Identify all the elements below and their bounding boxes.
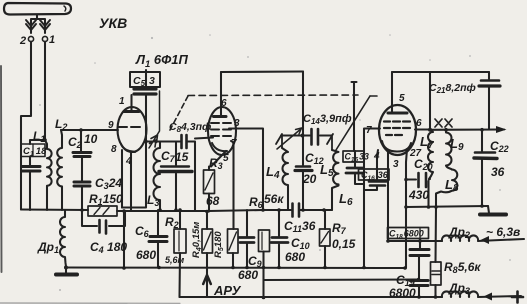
svg-text:4: 4: [373, 151, 380, 162]
svg-text:Др3: Др3: [448, 281, 470, 296]
wire grid bus y210 right: [209, 210, 324, 211]
resistor R6: [259, 230, 270, 252]
tube U1b pentode envelope: [208, 107, 236, 155]
svg-text:7: 7: [366, 125, 372, 136]
node Dr1 ground: [64, 266, 68, 270]
resistor R3: [208, 167, 210, 171]
arrow L4 tuning: [277, 128, 302, 149]
resistor R5: [231, 141, 234, 229]
wire output line: [430, 128, 504, 130]
triode anode bar: [124, 110, 139, 113]
svg-text:680: 680: [238, 268, 258, 282]
plus sign: [512, 292, 523, 303]
svg-text:C2: C2: [68, 135, 82, 150]
svg-text:L2: L2: [55, 117, 67, 132]
dashed tube envelope: [170, 96, 188, 130]
antenna arrow left: [26, 20, 36, 30]
triode cathode lead pin8: [121, 150, 123, 208]
U2 pin3 lead: [406, 149, 407, 268]
svg-text:R85,6к: R85,6к: [444, 260, 481, 275]
wire cathode node to ground bus: [123, 211, 125, 268]
svg-text:Др2: Др2: [448, 225, 470, 240]
wire left bus y210: [21, 208, 88, 211]
pentode cathode lead to R3: [211, 151, 226, 167]
svg-text:15: 15: [175, 150, 189, 164]
wire ARU bus y297: [180, 296, 443, 298]
pentode cathode: [212, 143, 227, 151]
node L5 bottom: [322, 208, 326, 212]
resistor R2: [179, 210, 181, 229]
svg-text:R2: R2: [165, 215, 179, 230]
wire C21 drop: [488, 72, 490, 79]
inductor L7: [428, 130, 433, 179]
choke Dr1: [60, 210, 66, 268]
capacitor C15 label box: [343, 151, 364, 162]
wire C15 top stub: [352, 82, 357, 151]
svg-text:R1150: R1150: [89, 192, 123, 207]
svg-text:C53: C53: [133, 75, 155, 88]
node tank left: [144, 140, 147, 143]
capacitor C4 parallel loop: [82, 210, 125, 226]
antenna stem T: [31, 15, 45, 34]
contact L4 tap: [276, 134, 282, 148]
terminal 1: [42, 36, 47, 41]
U2 pin7 lead left: [364, 129, 380, 268]
node R1 right junction: [122, 209, 126, 213]
svg-text:C20: C20: [414, 157, 433, 172]
node R2 top: [178, 208, 182, 212]
svg-text:C6: C6: [135, 224, 150, 239]
node antenna L1 junction: [43, 138, 47, 142]
U2 anode bar: [388, 112, 407, 115]
svg-text:~ 6,3в: ~ 6,3в: [486, 225, 520, 239]
wire tank top y141: [146, 140, 180, 142]
arrow plus supply: [484, 293, 493, 301]
node L3 bus: [158, 208, 162, 212]
svg-text:L8: L8: [445, 177, 459, 194]
wire terminal2 down with jog: [21, 42, 31, 210]
node C7 bus: [174, 208, 178, 212]
svg-text:1: 1: [119, 96, 125, 107]
wire terminal1 down: [44, 42, 46, 140]
svg-text:C9: C9: [248, 254, 262, 269]
edge artifact bottom: [0, 302, 180, 304]
antenna arrow right: [40, 20, 50, 30]
svg-text:5,6м: 5,6м: [165, 255, 185, 265]
capacitor C1 label box: [21, 144, 45, 157]
wire grid line y130: [61, 129, 118, 131]
svg-text:Л1 6Ф1П: Л1 6Ф1П: [135, 52, 188, 70]
arrow L5 tuning diagonal: [336, 96, 370, 150]
capacitor C22: [480, 128, 484, 132]
wire ground line y207: [406, 206, 488, 207]
wire heater rail: [386, 239, 390, 243]
svg-text:6800: 6800: [389, 286, 416, 300]
inductor L9: [444, 128, 448, 132]
svg-text:5: 5: [223, 153, 229, 164]
svg-text:2: 2: [19, 35, 26, 47]
antenna folded dipole bar: [4, 3, 71, 15]
capacitor C3: [81, 158, 83, 181]
pentode screen lead right: [229, 129, 263, 211]
wire C1 branch: [30, 140, 45, 144]
U2 heater lead: [387, 152, 389, 241]
wire rail stub to L7 node: [429, 72, 431, 130]
node R3 R4 junction: [205, 210, 209, 214]
svg-text:8: 8: [111, 144, 117, 155]
svg-text:C4 180: C4 180: [90, 240, 127, 255]
pentode anode lead: [220, 72, 222, 116]
capacitor C16 label box: [359, 169, 390, 180]
svg-text:6: 6: [221, 98, 227, 109]
antenna bar end mark: [64, 6, 66, 11]
svg-text:5: 5: [399, 93, 405, 104]
node L7 top: [428, 128, 432, 132]
arrow ARU head: [203, 275, 211, 284]
svg-text:R3: R3: [209, 156, 223, 171]
ground symbol left: [65, 268, 67, 274]
svg-text:L9: L9: [450, 136, 464, 153]
wire cathode bus y211: [117, 210, 209, 212]
arrow L3 tuning: [149, 91, 160, 148]
svg-text:1: 1: [49, 34, 55, 46]
svg-text:C84,3пф: C84,3пф: [169, 121, 211, 134]
svg-text:L1: L1: [33, 129, 45, 144]
svg-text:20: 20: [302, 172, 317, 186]
capacitor C15 plates: [346, 168, 363, 173]
U2 cathode arc: [382, 141, 411, 152]
wire ground bus y268: [66, 266, 405, 269]
inductor L2: [57, 130, 62, 210]
capacitor C9: [246, 210, 248, 236]
svg-text:R7: R7: [332, 221, 347, 236]
inductor L1: [45, 140, 52, 210]
resistor R7: [324, 210, 326, 229]
svg-text:430: 430: [408, 188, 429, 202]
svg-text:0,15: 0,15: [332, 237, 356, 251]
capacitor C2: [80, 130, 82, 151]
svg-text:АРУ: АРУ: [213, 283, 242, 298]
svg-text:R5180: R5180: [213, 231, 225, 258]
wire anode rail top: [221, 70, 303, 73]
svg-text:C118: C118: [23, 146, 47, 158]
arrow heater: [481, 236, 490, 244]
inductor L5 L6: [332, 150, 339, 210]
marks XX coupling: [435, 119, 452, 127]
capacitor C20: [406, 178, 430, 181]
svg-text:L7: L7: [420, 134, 434, 151]
svg-text:C218,2пф: C218,2пф: [429, 82, 476, 95]
node C18 C19 rail: [417, 278, 421, 282]
capacitor C12: [296, 165, 310, 168]
U2 grid rows: [384, 120, 410, 122]
node C2C3 bus: [80, 208, 84, 212]
svg-text:6: 6: [416, 118, 422, 129]
tube U1a triode envelope: [118, 107, 147, 152]
capacitor C16 plates: [369, 182, 386, 186]
wire C5 tank vertical: [122, 96, 146, 208]
triode grid dashes: [118, 126, 140, 128]
svg-text:L6: L6: [339, 191, 353, 208]
svg-text:4: 4: [125, 156, 132, 167]
arrow output: [496, 126, 507, 133]
svg-text:L4: L4: [266, 164, 280, 181]
U2 anode lead: [391, 72, 393, 112]
svg-text:R6: R6: [249, 195, 264, 210]
wire U2 pin6 to L7 node: [415, 128, 428, 130]
svg-text:C10: C10: [291, 236, 310, 251]
wire C8 to grid: [195, 138, 213, 139]
wire B rail y280: [264, 278, 419, 281]
capacitor C14: [312, 129, 319, 145]
svg-text:УКВ: УКВ: [99, 15, 127, 31]
pentode anode bar: [214, 115, 227, 118]
svg-text:3: 3: [234, 118, 240, 129]
svg-text:Др1: Др1: [37, 240, 59, 255]
terminal 2: [28, 36, 33, 41]
triode cathode: [121, 144, 135, 152]
capacitor C19: [410, 279, 428, 282]
inductor L3 variable with arrow: [154, 142, 161, 211]
capacitor C1 plates: [22, 167, 40, 172]
resistor R1: [88, 206, 117, 216]
choke Dr3: [442, 291, 521, 297]
capacitor C8: [182, 135, 187, 148]
wire rail drop to C12: [302, 72, 304, 166]
svg-text:10: 10: [84, 132, 98, 146]
wire C20 node down: [427, 181, 429, 207]
svg-text:36: 36: [491, 165, 505, 179]
svg-text:C324: C324: [95, 176, 122, 191]
capacitor C7 trimmer: [175, 142, 177, 166]
node C2 tap: [79, 128, 83, 132]
ground symbol right: [488, 206, 489, 213]
choke Dr2: [442, 235, 524, 241]
capacitor C11 series: [293, 204, 300, 217]
capacitor C10: [277, 208, 281, 212]
svg-text:680: 680: [285, 250, 305, 264]
resistor R8: [431, 262, 442, 285]
wire C14 line y135: [281, 134, 331, 136]
svg-text:7: 7: [231, 138, 237, 149]
svg-text:R40,15м: R40,15м: [191, 222, 203, 258]
wire L8 R8 vertical: [434, 207, 437, 262]
wire anode rail 2: [392, 71, 489, 73]
resistor R4 with AGC arrow: [206, 212, 208, 230]
edge artifact left: [0, 66, 3, 272]
svg-text:L3: L3: [147, 193, 159, 208]
capacitor C5 label box: [130, 72, 160, 87]
pentode grid rows: [211, 122, 231, 124]
svg-text:56к: 56к: [264, 192, 284, 206]
capacitor C18 label box: [388, 228, 429, 239]
capacitor C5 plates: [134, 89, 156, 94]
node R6 top: [261, 208, 265, 212]
svg-text:3: 3: [393, 159, 399, 170]
U2 pin4 lead: [377, 150, 378, 156]
svg-text:L5: L5: [320, 162, 334, 179]
triode pin4 lead: [130, 152, 132, 211]
svg-text:C22: C22: [490, 139, 509, 154]
svg-text:680: 680: [136, 248, 156, 262]
inductor L4: [282, 148, 288, 210]
inductor L8: [436, 170, 457, 208]
svg-text:9: 9: [108, 120, 114, 131]
contact L5 tap: [327, 134, 333, 150]
svg-text:C1136: C1136: [284, 219, 316, 234]
capacitor C18: [419, 239, 421, 249]
capacitor C21: [481, 79, 499, 82]
svg-text:68: 68: [206, 194, 220, 208]
capacitor C6: [157, 210, 159, 235]
tube U2 pentode envelope: [379, 105, 416, 155]
svg-text:C143,9пф: C143,9пф: [303, 113, 352, 126]
triode anode lead: [130, 95, 132, 111]
svg-text:C7: C7: [161, 149, 176, 164]
